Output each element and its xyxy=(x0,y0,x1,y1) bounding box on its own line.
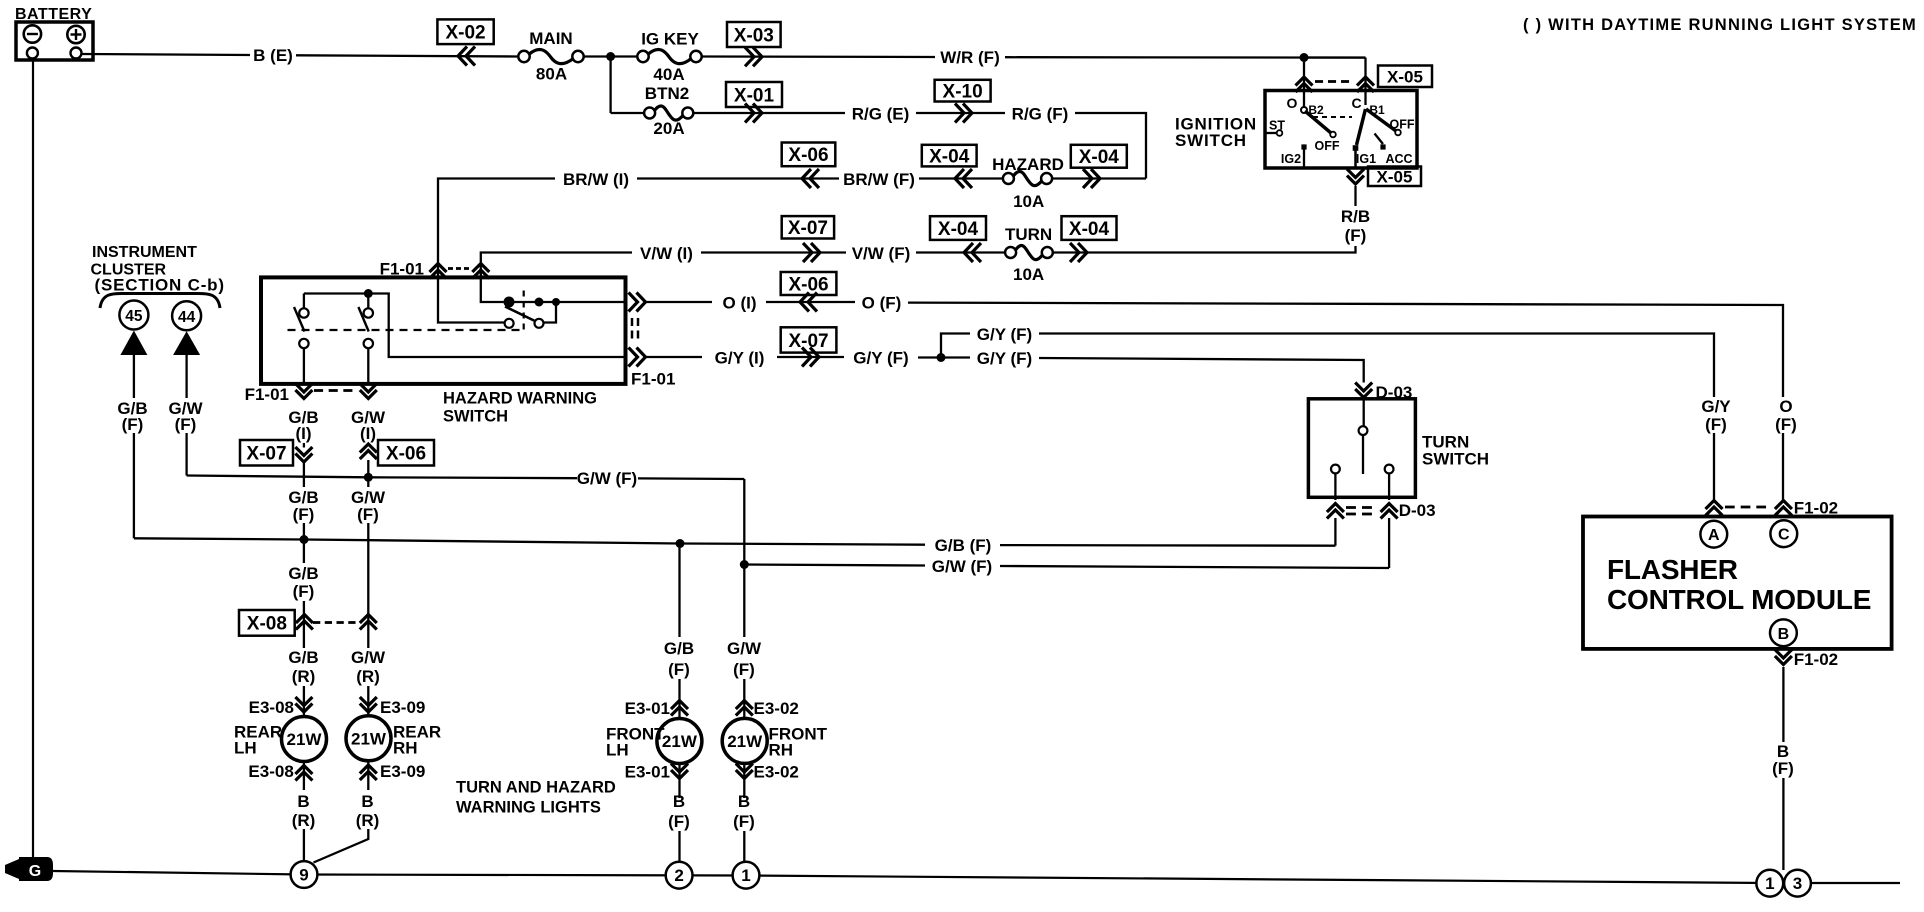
battery xyxy=(16,22,93,60)
svg-text:SWITCH: SWITCH xyxy=(1422,450,1489,469)
connector X-03 xyxy=(727,22,781,47)
hazard mech dashed link xyxy=(288,329,524,331)
svg-text:O: O xyxy=(1287,95,1298,111)
wire G/Y upper long xyxy=(1039,334,1714,398)
svg-text:G/W: G/W xyxy=(351,648,386,667)
wire G/W upper bus xyxy=(187,476,577,479)
connector F1-01 top chevrons xyxy=(430,264,447,273)
svg-text:D-03: D-03 xyxy=(1399,501,1436,520)
svg-text:WARNING LIGHTS: WARNING LIGHTS xyxy=(456,799,601,817)
svg-text:SWITCH: SWITCH xyxy=(443,408,508,426)
svg-text:X-05: X-05 xyxy=(1387,67,1423,86)
svg-text:45: 45 xyxy=(125,308,143,325)
flasher control module box xyxy=(1583,517,1892,649)
svg-text:G: G xyxy=(29,863,41,880)
svg-text:X-07: X-07 xyxy=(788,331,828,352)
svg-text:G/B: G/B xyxy=(288,564,318,583)
wire G/W I segment xyxy=(367,443,369,444)
cluster arrow 45 xyxy=(120,331,147,356)
svg-text:O (I): O (I) xyxy=(723,293,757,312)
svg-text:E3-02: E3-02 xyxy=(754,699,799,718)
svg-text:(F): (F) xyxy=(357,505,379,524)
wire front RH to ground 1 xyxy=(743,831,745,862)
chevron X-01 xyxy=(745,104,754,123)
svg-text:2: 2 xyxy=(674,866,683,885)
wire G/W corner down xyxy=(743,479,745,565)
svg-text:G/Y (F): G/Y (F) xyxy=(853,348,908,367)
svg-text:TURN AND HAZARD: TURN AND HAZARD xyxy=(456,779,616,797)
turn switch right terminal xyxy=(1385,465,1394,474)
svg-text:G/W (F): G/W (F) xyxy=(932,557,992,576)
svg-text:IG KEY: IG KEY xyxy=(641,30,699,49)
hazard right switch wire O xyxy=(509,301,626,303)
svg-text:E3-01: E3-01 xyxy=(625,699,670,718)
connector X-07 g/y xyxy=(781,327,837,352)
wire G/Y into flasher xyxy=(1713,433,1715,500)
junction dot G/B rear xyxy=(300,535,309,544)
connector E3-01 top chevron xyxy=(671,701,688,710)
svg-text:LH: LH xyxy=(234,739,257,758)
terminal 1 right xyxy=(1756,870,1783,897)
svg-text:IG2: IG2 xyxy=(1281,152,1301,166)
connector X-07 box left xyxy=(240,440,293,466)
wire G/W to X-08 xyxy=(367,523,369,648)
svg-text:40A: 40A xyxy=(653,65,684,84)
chevron X-04 hazard right xyxy=(1083,169,1092,188)
svg-text:G/Y (I): G/Y (I) xyxy=(715,348,765,367)
chevron X-10 xyxy=(955,104,964,123)
wire 45 to G/B bus xyxy=(133,433,135,538)
junction dot G/W front xyxy=(740,560,749,569)
fuse IG KEY 40A xyxy=(648,50,692,64)
wire rear LH below lamp xyxy=(303,762,305,791)
ground bus wire xyxy=(53,871,1900,883)
hazard right switch return xyxy=(544,302,556,323)
wire O to X-06 xyxy=(766,301,855,303)
svg-text:BR/W (F): BR/W (F) xyxy=(843,170,915,189)
svg-text:44: 44 xyxy=(178,309,196,326)
connector X-07 v/w xyxy=(782,216,834,238)
connector E3-08 top chevron xyxy=(295,704,312,713)
svg-text:X-05: X-05 xyxy=(1377,167,1413,186)
svg-text:F1-01: F1-01 xyxy=(245,385,289,404)
svg-text:E3-09: E3-09 xyxy=(380,762,425,781)
svg-text:(R): (R) xyxy=(292,667,316,686)
wire G/W R to lamp xyxy=(367,686,369,716)
svg-text:(SECTION C-b): (SECTION C-b) xyxy=(95,276,225,295)
svg-text:G/Y (F): G/Y (F) xyxy=(977,325,1032,344)
wire front LH from G/B bus xyxy=(678,544,680,638)
wire O(I) xyxy=(646,301,713,303)
chevron X-06 br/w xyxy=(802,169,811,188)
connector X-05 chevrons xyxy=(1296,77,1313,86)
ignition arm B2-OFF xyxy=(1305,111,1331,133)
cluster arrow 44 xyxy=(173,331,200,355)
junction dot G/B front xyxy=(676,539,685,548)
wire main dot down to BTN2 row xyxy=(609,57,611,114)
svg-text:G/W (F): G/W (F) xyxy=(577,469,637,488)
svg-text:MAIN: MAIN xyxy=(529,29,572,48)
cluster bracket xyxy=(100,294,220,309)
wire BR/W(F) to fuse xyxy=(919,177,1003,179)
connector E3-02 top chevron xyxy=(736,701,753,710)
junction dot G/Y xyxy=(937,353,946,362)
terminal 2 xyxy=(666,862,693,889)
terminal 3 right xyxy=(1784,870,1811,897)
ignition switch box xyxy=(1265,91,1417,169)
flasher terminal A xyxy=(1700,521,1727,548)
connector E3-01 bottom chevron xyxy=(671,770,688,779)
connector X-08 chevrons xyxy=(296,615,313,624)
svg-text:X-10: X-10 xyxy=(943,81,983,102)
connector E3-02 bottom chevron xyxy=(736,770,753,779)
hazard right switch circles xyxy=(505,319,514,328)
wire B down xyxy=(1782,667,1784,742)
hazard switch1 wire down xyxy=(303,348,305,384)
wire turn fuse to R/B corner xyxy=(1053,246,1356,253)
svg-text:X-06: X-06 xyxy=(386,444,426,465)
svg-text:X-08: X-08 xyxy=(247,614,287,635)
svg-text:(F): (F) xyxy=(668,812,690,831)
svg-text:(F): (F) xyxy=(293,582,315,601)
svg-text:RH: RH xyxy=(393,739,418,758)
ignition arm B1-OFF xyxy=(1366,109,1396,131)
wire BTN2 row left xyxy=(611,112,645,114)
svg-text:(R): (R) xyxy=(356,667,380,686)
svg-text:X-07: X-07 xyxy=(246,444,286,465)
connector X-04 turn left xyxy=(930,216,986,240)
svg-text:V/W (I): V/W (I) xyxy=(640,244,693,263)
wire G/W lower bus xyxy=(744,565,925,566)
wire W/R dot to ignition B1 corner xyxy=(1304,56,1366,58)
hazard switch2 top circle xyxy=(364,308,373,317)
ground G xyxy=(19,857,53,881)
wire O(F) long xyxy=(908,303,1783,397)
svg-text:LH: LH xyxy=(606,741,629,760)
svg-text:(I): (I) xyxy=(295,424,311,443)
wire front RH from G/W dot xyxy=(743,565,745,638)
svg-text:E3-01: E3-01 xyxy=(625,763,670,782)
svg-text:X-06: X-06 xyxy=(788,145,828,166)
ignition arm B1-IG1 xyxy=(1357,109,1366,145)
svg-text:G/Y: G/Y xyxy=(1701,397,1731,416)
svg-text:E3-09: E3-09 xyxy=(380,698,425,717)
turn switch box xyxy=(1308,399,1415,498)
svg-text:G/W: G/W xyxy=(727,639,762,658)
svg-text:B: B xyxy=(738,792,750,811)
svg-text:80A: 80A xyxy=(536,65,567,84)
hazard link junction dot xyxy=(364,289,373,298)
svg-text:(F): (F) xyxy=(668,660,690,679)
svg-text:B: B xyxy=(297,792,309,811)
svg-text:(F): (F) xyxy=(293,505,315,524)
fuse BTN2 20A xyxy=(654,106,683,120)
connector D-03 top chevron xyxy=(1355,389,1372,398)
wire V/W(I) to X-07 xyxy=(701,251,846,253)
wire down to B2 xyxy=(1303,58,1305,108)
svg-text:O (F): O (F) xyxy=(862,293,902,312)
wire 45 down xyxy=(133,355,135,398)
connector X-05 box xyxy=(1378,66,1432,88)
hazard switch1 top circle xyxy=(299,308,308,317)
svg-text:(F): (F) xyxy=(122,415,144,434)
connector D-03 bottom chevrons xyxy=(1327,504,1344,513)
connector X-05 bottom chevron xyxy=(1347,176,1364,185)
junction dot main xyxy=(606,52,615,61)
svg-text:ACC: ACC xyxy=(1385,152,1412,166)
svg-text:HAZARD WARNING: HAZARD WARNING xyxy=(443,390,597,408)
cluster terminal 45 xyxy=(119,301,148,330)
lamp FRONT LH 21W xyxy=(657,719,702,764)
connector X-06 br/w xyxy=(782,143,836,167)
chevron X-02 xyxy=(458,47,467,66)
svg-text:C: C xyxy=(1351,95,1361,111)
connector X-06 box right xyxy=(378,440,434,466)
svg-text:21W: 21W xyxy=(287,730,323,749)
wire B(E) label to MAIN fuse xyxy=(296,55,518,56)
lamp REAR RH 21W xyxy=(346,716,391,761)
svg-text:G/B (F): G/B (F) xyxy=(935,536,992,555)
svg-text:(F): (F) xyxy=(1345,226,1367,245)
wire front RH to lamp xyxy=(743,679,745,719)
wire G/W f segment xyxy=(367,460,369,487)
svg-text:F1-02: F1-02 xyxy=(1794,650,1838,669)
svg-text:B: B xyxy=(361,792,373,811)
hazard switch2 wire down xyxy=(367,348,369,384)
connector E3-08 bottom chevron xyxy=(295,766,312,775)
svg-text:E3-08: E3-08 xyxy=(248,762,293,781)
fuse HAZARD 10A xyxy=(1013,172,1042,186)
svg-text:X-04: X-04 xyxy=(1069,219,1110,240)
connector X-04 hazard right xyxy=(1071,145,1127,168)
svg-text:B: B xyxy=(1778,626,1790,643)
wire IGKEY to W/R label xyxy=(702,55,935,58)
svg-text:X-04: X-04 xyxy=(929,146,970,167)
svg-text:10A: 10A xyxy=(1013,192,1044,211)
hazard right switch dashed xyxy=(523,291,525,333)
svg-text:SWITCH: SWITCH xyxy=(1175,131,1247,150)
wire BTN2 to R/G label xyxy=(693,112,845,114)
wire G/Y branch up xyxy=(941,334,970,358)
junction dot W/R xyxy=(1300,53,1309,62)
wire B to ground terminals xyxy=(1782,778,1784,870)
wire G/B R to lamp xyxy=(303,686,305,717)
svg-text:G/B: G/B xyxy=(664,639,694,658)
svg-text:9: 9 xyxy=(299,866,308,885)
fuse MAIN 80A xyxy=(529,50,574,64)
wire G/Y(F) to split xyxy=(918,356,941,358)
svg-text:R/B: R/B xyxy=(1341,207,1370,226)
connector F1-01 bottom chevrons xyxy=(295,390,312,399)
chevron X-04 turn left xyxy=(964,243,973,262)
svg-text:(F): (F) xyxy=(733,660,755,679)
turn switch top terminal xyxy=(1363,399,1365,426)
svg-text:20A: 20A xyxy=(653,119,684,138)
connector X-05 bottom box xyxy=(1368,167,1421,187)
svg-text:OFF: OFF xyxy=(1315,139,1340,153)
svg-text:B: B xyxy=(673,792,685,811)
terminal 9 xyxy=(291,861,318,888)
wire IG1 to box bottom xyxy=(1354,151,1357,169)
hazard switch2 bottom circle xyxy=(364,339,373,348)
svg-text:1: 1 xyxy=(1765,874,1774,893)
wire 44 to G/W bus xyxy=(185,433,187,476)
chevron X-06 o xyxy=(800,293,809,312)
svg-text:X-02: X-02 xyxy=(445,23,485,44)
svg-text:( ) WITH DAYTIME RUNNING LIGHT: ( ) WITH DAYTIME RUNNING LIGHT SYSTEM xyxy=(1523,16,1917,34)
cluster terminal 44 xyxy=(172,301,201,330)
svg-text:FLASHER: FLASHER xyxy=(1607,554,1738,585)
wire BR/W(I) to X-06 xyxy=(637,177,839,179)
lamp FRONT RH 21W xyxy=(722,718,767,763)
svg-text:B (E): B (E) xyxy=(253,46,293,65)
wire BR/W corner to label xyxy=(438,179,555,278)
chevron X-04 hazard left xyxy=(955,169,964,188)
wire MAIN to IGKEY fuse xyxy=(584,55,638,57)
svg-text:HAZARD: HAZARD xyxy=(992,155,1064,174)
connector X-10 xyxy=(935,80,991,102)
wire G/B to X-08 xyxy=(303,601,305,648)
chevron X-03 xyxy=(745,47,754,66)
wire B(E) battery to label xyxy=(82,54,250,55)
flasher terminal C xyxy=(1770,520,1797,547)
wire R/B upper xyxy=(1354,186,1356,206)
hazard top link wire xyxy=(303,294,305,309)
wire turn left to G/B bus xyxy=(1334,518,1336,546)
svg-text:O: O xyxy=(1779,397,1792,416)
junction dot G/W haz xyxy=(364,473,373,482)
svg-text:1: 1 xyxy=(741,866,750,885)
ignition dashed link xyxy=(1313,116,1352,118)
wire rear LH to ground 9 xyxy=(303,829,305,861)
wire V/W(F) to fuse xyxy=(916,251,1005,253)
svg-text:TURN: TURN xyxy=(1005,225,1052,244)
flasher terminal B xyxy=(1770,619,1797,646)
connector F1-02 bottom chevron xyxy=(1775,656,1792,665)
svg-text:(R): (R) xyxy=(292,811,316,830)
svg-text:(R): (R) xyxy=(356,811,380,830)
wire G/B bus xyxy=(134,538,925,544)
svg-text:BTN2: BTN2 xyxy=(645,84,689,103)
svg-text:21W: 21W xyxy=(662,732,698,751)
wire G/Y to X-07 xyxy=(777,356,844,358)
svg-text:(F): (F) xyxy=(175,415,197,434)
svg-text:X-03: X-03 xyxy=(734,25,774,46)
svg-text:INSTRUMENT: INSTRUMENT xyxy=(92,244,197,261)
svg-text:3: 3 xyxy=(1793,874,1802,893)
hazard switch1 bottom circle xyxy=(299,339,308,348)
svg-text:V/W (F): V/W (F) xyxy=(852,244,911,263)
turn switch left terminal xyxy=(1331,465,1340,474)
wire front RH below lamp xyxy=(743,763,745,798)
fuse TURN 10A xyxy=(1015,246,1043,260)
hazard right switch dots xyxy=(535,298,544,307)
svg-text:F1-01: F1-01 xyxy=(631,370,675,389)
svg-text:(F): (F) xyxy=(1705,415,1727,434)
wire V/W corner to label xyxy=(481,253,632,278)
svg-text:G/Y (F): G/Y (F) xyxy=(977,349,1032,368)
wire battery negative to ground xyxy=(32,59,34,858)
wire G/B to bus dot xyxy=(303,523,305,563)
connector F1-02 top chevrons xyxy=(1706,501,1723,510)
connector E3-09 top chevron xyxy=(360,704,377,713)
wire G/Y lower to turn switch xyxy=(1039,358,1364,383)
wire front LH to ground 2 xyxy=(678,831,680,862)
svg-text:E3-08: E3-08 xyxy=(249,698,294,717)
connector X-08 box xyxy=(239,610,295,636)
hazard right switch pivot xyxy=(504,297,515,308)
chevron X-07 g/y xyxy=(802,348,811,367)
svg-text:10A: 10A xyxy=(1013,265,1044,284)
connector X-04 turn right xyxy=(1062,216,1117,240)
svg-text:R/G (F): R/G (F) xyxy=(1012,104,1069,123)
svg-text:CONTROL MODULE: CONTROL MODULE xyxy=(1607,584,1871,615)
wire 44 down xyxy=(185,355,187,398)
svg-text:(F): (F) xyxy=(1772,759,1794,778)
wire front LH below lamp xyxy=(678,764,680,799)
hazard switch2 arm xyxy=(358,307,368,332)
wire hazard fuse to R/G corner xyxy=(1052,177,1146,179)
wire R/G(E) to X-10 xyxy=(916,112,1005,114)
svg-text:BR/W (I): BR/W (I) xyxy=(563,170,629,189)
svg-text:X-04: X-04 xyxy=(1079,147,1120,168)
hazard switch1 arm xyxy=(294,307,305,332)
svg-text:G/B: G/B xyxy=(288,648,318,667)
svg-text:W/R (F): W/R (F) xyxy=(940,48,999,67)
svg-text:(F): (F) xyxy=(1775,415,1797,434)
wire turn right to G/W bus xyxy=(1388,518,1390,568)
wire R/G(F) to corner xyxy=(1075,113,1146,179)
connector E3-09 bottom chevron xyxy=(360,765,377,774)
chevron X-07 g/b xyxy=(295,454,312,463)
svg-text:(F): (F) xyxy=(733,812,755,831)
wire front LH to lamp xyxy=(678,679,680,719)
terminal 1 front xyxy=(733,862,760,889)
svg-text:(I): (I) xyxy=(360,424,376,443)
svg-text:A: A xyxy=(1708,527,1720,544)
wire G/Y lower xyxy=(941,356,970,358)
svg-text:OFF: OFF xyxy=(1390,118,1415,132)
svg-text:C: C xyxy=(1778,527,1790,544)
svg-text:RH: RH xyxy=(769,741,794,760)
wire G/B I segment xyxy=(303,443,305,448)
svg-text:X-04: X-04 xyxy=(938,219,979,240)
lamp REAR LH 21W xyxy=(282,717,327,762)
svg-text:X-07: X-07 xyxy=(788,218,828,239)
svg-text:IG1: IG1 xyxy=(1356,152,1376,166)
wire down to B1 xyxy=(1364,58,1366,106)
wire O into flasher xyxy=(1782,433,1784,500)
wire rear RH below lamp xyxy=(367,761,369,790)
connector X-06 o xyxy=(781,272,837,295)
wire rear RH diag to 9 xyxy=(314,829,369,863)
hazard warning switch box xyxy=(261,277,626,384)
chevron X-07 v/w xyxy=(803,243,812,262)
hazard wire V/W inside xyxy=(481,278,504,303)
chevron X-06 g/w xyxy=(360,444,377,453)
chevron X-04 turn right xyxy=(1070,243,1079,262)
hazard box exit chevrons xyxy=(629,293,638,312)
connector X-01 xyxy=(726,82,782,107)
ignition contact B2 xyxy=(1301,107,1307,113)
wire W/R to ignition xyxy=(1005,56,1366,59)
connector X-04 hazard left xyxy=(922,145,977,167)
wire G/Y(I) xyxy=(646,356,703,358)
svg-text:21W: 21W xyxy=(351,729,387,748)
hazard wire BR/W inside xyxy=(438,278,505,323)
connector X-02 xyxy=(437,19,493,44)
svg-text:21W: 21W xyxy=(727,732,763,751)
